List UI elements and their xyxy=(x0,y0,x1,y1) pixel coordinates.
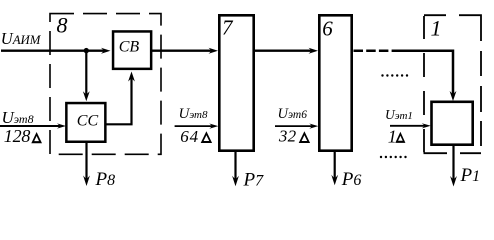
svg-text:1: 1 xyxy=(431,15,442,40)
node junction xyxy=(84,48,89,53)
dots row upper xyxy=(381,74,408,76)
dashed wire 6 to 1 xyxy=(354,49,399,52)
block СВ xyxy=(113,31,151,68)
svg-text:P7: P7 xyxy=(243,169,265,190)
dashed box 1 xyxy=(424,14,482,153)
wire into block 1 xyxy=(397,51,453,97)
wire UАИМ input xyxy=(1,50,106,52)
svg-text:P1: P1 xyxy=(460,165,481,186)
svg-text:6: 6 xyxy=(322,16,333,40)
svg-text:СС: СС xyxy=(77,113,99,130)
wire 1 to P1 xyxy=(452,145,454,181)
block 6 xyxy=(319,15,351,150)
svg-text:P6: P6 xyxy=(341,169,362,190)
wire Uэт1 into block 1 xyxy=(390,125,427,127)
svg-text:64: 64 xyxy=(180,127,199,146)
block 1 square xyxy=(432,102,473,145)
svg-text:32: 32 xyxy=(278,127,297,146)
svg-text:P8: P8 xyxy=(95,169,116,190)
wire СС to P8 xyxy=(85,143,87,181)
wire Uэт6 into block 6 xyxy=(275,125,314,127)
wire СВ to block 7 xyxy=(152,50,214,52)
svg-text:Uэт1: Uэт1 xyxy=(385,107,413,122)
svg-text:8: 8 xyxy=(57,13,68,38)
wire СС to СВ xyxy=(106,76,132,125)
wire junction to СС xyxy=(85,51,87,97)
wire Uэт8 into block 7 xyxy=(175,125,214,127)
svg-text:7: 7 xyxy=(222,15,234,39)
dashed box 8 xyxy=(50,14,161,155)
wire 6 to P6 xyxy=(334,152,336,180)
svg-text:1: 1 xyxy=(388,126,397,146)
wire Uэт8 into СС xyxy=(0,125,62,127)
svg-text:Uэт8: Uэт8 xyxy=(179,106,208,122)
svg-text:СВ: СВ xyxy=(119,39,140,56)
block СС xyxy=(66,103,105,142)
wire 7 to P7 xyxy=(234,152,236,181)
dots row lower xyxy=(380,156,407,158)
svg-text:128: 128 xyxy=(4,126,31,146)
svg-text:Uэт6: Uэт6 xyxy=(278,106,308,122)
block 7 xyxy=(219,15,253,150)
wire 7 to 6 xyxy=(255,50,314,52)
